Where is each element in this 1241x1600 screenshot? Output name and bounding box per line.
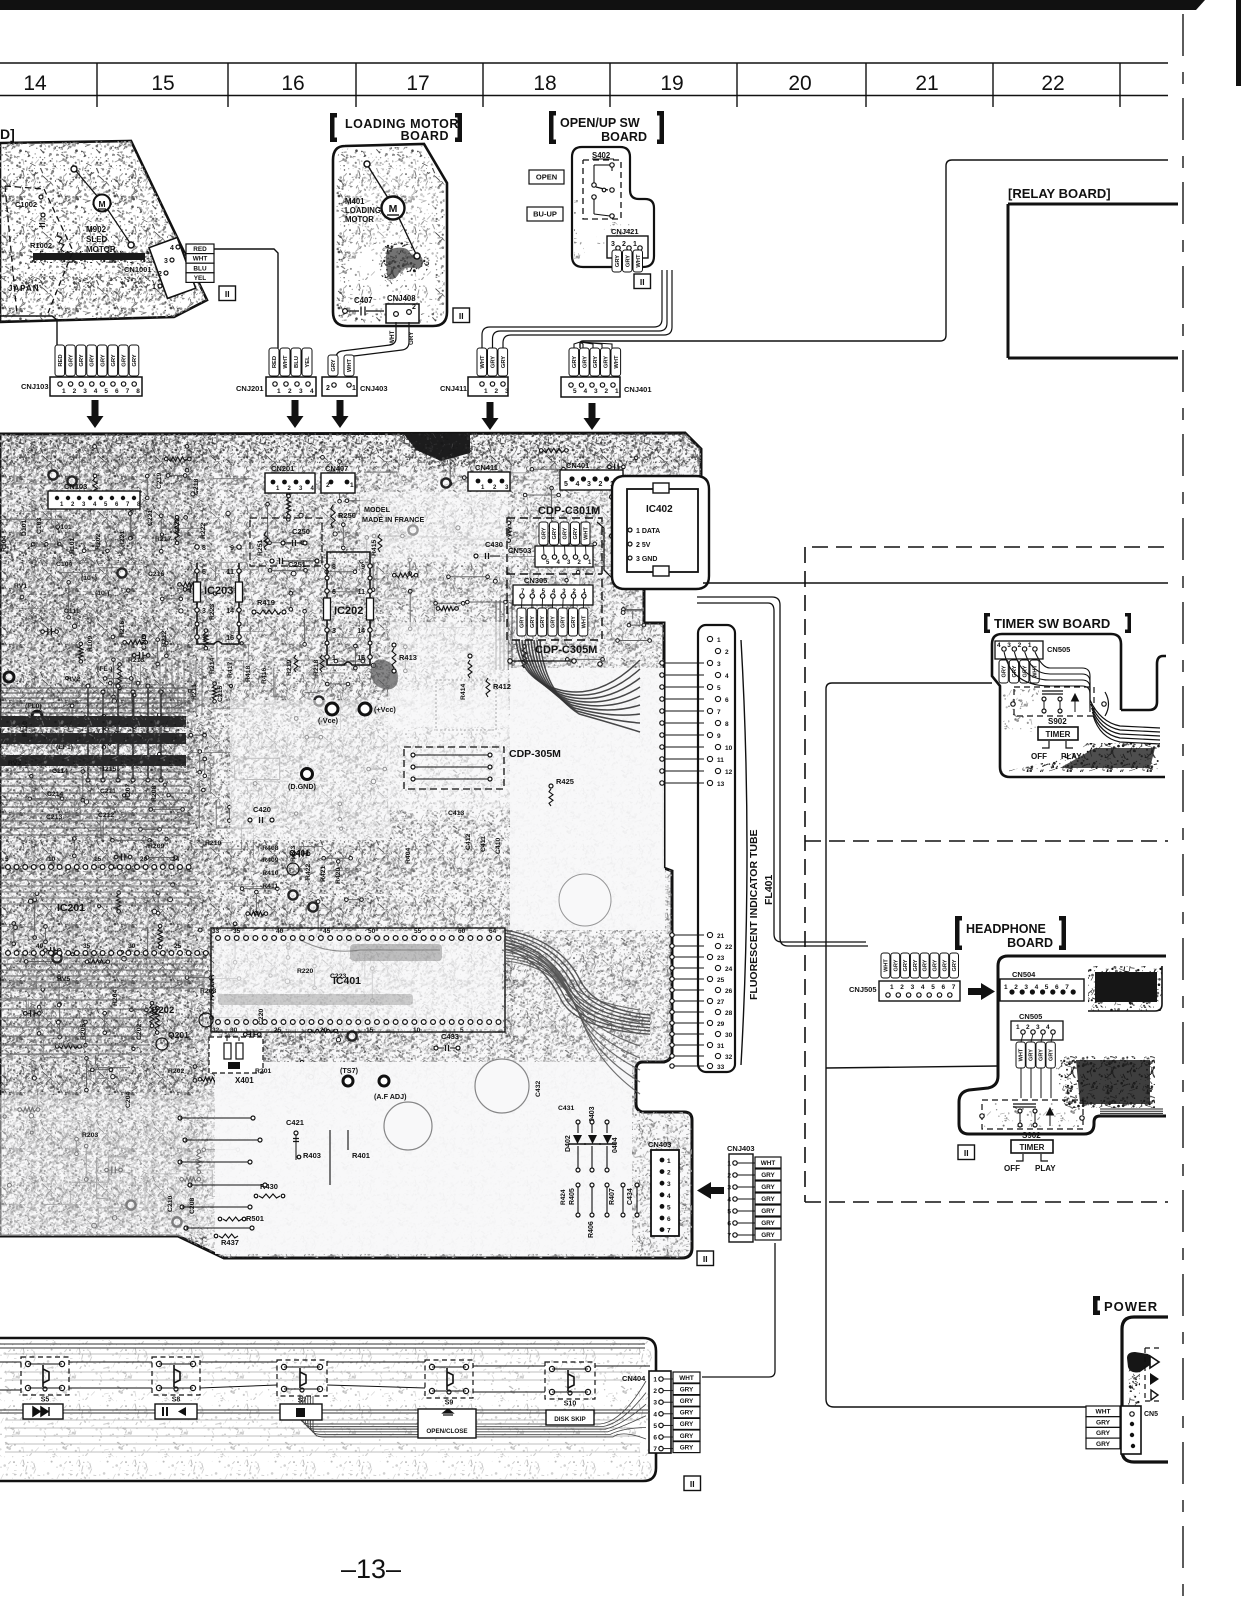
svg-text:BLU: BLU xyxy=(294,356,300,368)
svg-text:BOARD: BOARD xyxy=(601,130,647,144)
svg-text:R204: R204 xyxy=(112,990,119,1006)
trace with pads right of CN503 xyxy=(610,495,615,500)
svg-text:7: 7 xyxy=(653,1446,657,1453)
svg-text:GRY: GRY xyxy=(680,1386,694,1393)
svg-text:WHT: WHT xyxy=(761,1160,776,1167)
svg-text:GRY: GRY xyxy=(1049,1049,1055,1061)
svg-text:R425: R425 xyxy=(556,777,574,786)
svg-text:WHT: WHT xyxy=(584,527,590,540)
wires CN505 fan right xyxy=(1035,652,1090,700)
svg-text:GRY: GRY xyxy=(573,527,579,539)
svg-text:PLAY: PLAY xyxy=(1035,1164,1056,1173)
svg-text:WHT: WHT xyxy=(193,256,208,263)
svg-text:5: 5 xyxy=(931,984,935,991)
svg-text:24: 24 xyxy=(172,856,180,863)
motor M401 xyxy=(382,197,405,220)
svg-text:GRY: GRY xyxy=(893,959,899,971)
headphone board title xyxy=(955,916,962,950)
loading motor board outline xyxy=(333,144,447,326)
svg-text:GRY: GRY xyxy=(520,616,526,628)
svg-text:7: 7 xyxy=(717,709,721,716)
svg-text:GRY: GRY xyxy=(1096,1419,1111,1426)
svg-text:CNJ403: CNJ403 xyxy=(360,384,388,393)
speckle inside timer board xyxy=(1003,688,1039,732)
svg-text:CN305: CN305 xyxy=(524,576,547,585)
svg-text:CN403: CN403 xyxy=(648,1140,671,1149)
svg-text:MOTOR: MOTOR xyxy=(345,215,374,224)
svg-text:1: 1 xyxy=(667,1158,671,1165)
svg-text:35: 35 xyxy=(233,928,241,935)
svg-text:BOARD: BOARD xyxy=(401,129,449,143)
svg-text:C215: C215 xyxy=(217,686,224,702)
main PCB board outline xyxy=(0,433,701,1258)
svg-text:–13–: –13– xyxy=(341,1554,401,1584)
svg-text:(EF1): (EF1) xyxy=(56,744,73,751)
wire CNJ421 bundle to CNJ411 xyxy=(482,270,662,377)
svg-text:CDP-C301M: CDP-C301M xyxy=(538,505,600,517)
svg-text:GRY: GRY xyxy=(680,1433,694,1440)
svg-text:1: 1 xyxy=(727,1161,731,1168)
arrow to CN403 xyxy=(697,1182,724,1199)
svg-text:R203: R203 xyxy=(82,1132,98,1139)
svg-text:TIMER: TIMER xyxy=(1020,1143,1045,1152)
svg-text:CNJ408: CNJ408 xyxy=(387,294,416,303)
switch S5 xyxy=(21,1357,69,1395)
svg-text:4: 4 xyxy=(1035,984,1039,991)
svg-text:C214: C214 xyxy=(47,791,63,798)
wire labels WHT GRY GRY GRY (headphone) xyxy=(1016,1042,1025,1068)
dark wedge on pcb top edge xyxy=(403,433,470,461)
wire CN1001 to CNJ201 xyxy=(214,249,278,348)
svg-text:2: 2 xyxy=(288,388,292,395)
wire color labels RED WHT BLU YEL xyxy=(186,244,214,254)
wire labels GRY GRY WHT xyxy=(612,250,622,272)
svg-text:3: 3 xyxy=(727,1185,731,1192)
svg-text:4: 4 xyxy=(310,388,314,395)
svg-text:8: 8 xyxy=(725,721,729,728)
svg-text:C111: C111 xyxy=(64,608,80,615)
svg-text:6: 6 xyxy=(942,984,946,991)
svg-text:GRY: GRY xyxy=(550,616,556,628)
svg-text:2: 2 xyxy=(495,388,499,395)
svg-text:CN404: CN404 xyxy=(622,1374,646,1383)
svg-text:16: 16 xyxy=(281,72,304,95)
svg-text:16: 16 xyxy=(226,635,234,642)
svg-text:R203: R203 xyxy=(200,988,216,995)
svg-text:C212: C212 xyxy=(98,812,114,819)
svg-text:30: 30 xyxy=(230,1027,238,1034)
svg-text:17: 17 xyxy=(406,72,429,95)
IC IC202 xyxy=(327,552,370,665)
svg-text:GRY: GRY xyxy=(913,959,919,971)
pad D.GND xyxy=(302,769,313,780)
label box OPEN xyxy=(529,170,564,184)
svg-text:RED: RED xyxy=(193,246,207,253)
svg-text:4: 4 xyxy=(1046,1024,1050,1031)
connector FL401 (fluorescent tube) xyxy=(698,625,735,1072)
connector CNJ403 with labels xyxy=(328,355,338,376)
pads TS7 / A.F ADJ xyxy=(343,1076,353,1086)
svg-text:5: 5 xyxy=(727,1209,731,1216)
svg-text:GRY: GRY xyxy=(923,959,929,971)
svg-text:6: 6 xyxy=(727,1221,731,1228)
svg-text:3: 3 xyxy=(1024,984,1028,991)
svg-text:S8: S8 xyxy=(172,1397,181,1404)
svg-text:35: 35 xyxy=(83,943,91,950)
svg-text:20: 20 xyxy=(320,1027,328,1034)
svg-text:15: 15 xyxy=(94,856,102,863)
svg-text:WHT: WHT xyxy=(1095,1409,1110,1416)
svg-text:GRY: GRY xyxy=(593,356,599,368)
pads row below CDP-C305M xyxy=(508,659,512,663)
svg-text:YEL: YEL xyxy=(305,356,311,368)
svg-text:WHT: WHT xyxy=(636,254,642,268)
top black bar xyxy=(0,0,1205,10)
svg-text:8: 8 xyxy=(202,545,206,552)
svg-text:3: 3 xyxy=(83,388,87,395)
svg-text:R104: R104 xyxy=(1,536,8,552)
svg-text:C222: C222 xyxy=(174,518,181,534)
wire CNJ403 to CN404 xyxy=(702,1243,775,1377)
svg-text:GRY: GRY xyxy=(542,527,548,539)
svg-text:R1002: R1002 xyxy=(30,241,52,250)
svg-text:2: 2 xyxy=(158,271,162,278)
svg-text:GRY: GRY xyxy=(111,354,117,366)
IC IC402 xyxy=(627,489,698,572)
svg-text:1: 1 xyxy=(717,637,721,644)
key icon stop xyxy=(280,1404,322,1420)
svg-text:1 DATA: 1 DATA xyxy=(636,528,660,535)
svg-text:GRY: GRY xyxy=(501,356,507,368)
svg-text:R419: R419 xyxy=(257,598,275,607)
svg-text:R212: R212 xyxy=(161,631,168,647)
dark trace band xyxy=(30,251,152,263)
svg-text:GRY: GRY xyxy=(903,959,909,971)
svg-text:20: 20 xyxy=(140,856,148,863)
svg-text:14: 14 xyxy=(23,72,47,95)
svg-text:GRY: GRY xyxy=(761,1172,775,1179)
svg-text:R207: R207 xyxy=(125,784,132,800)
TIMER label box (headphone) xyxy=(1011,1140,1053,1153)
svg-text:(FL0): (FL0) xyxy=(25,703,42,710)
svg-text:M: M xyxy=(389,203,398,215)
svg-text:7: 7 xyxy=(952,984,956,991)
svg-text:R109: R109 xyxy=(87,636,94,652)
wires motor to pads xyxy=(368,166,388,198)
svg-text:14: 14 xyxy=(226,608,234,615)
svg-text:45: 45 xyxy=(323,928,331,935)
connector CNJ401 with labels xyxy=(569,348,579,376)
svg-text:R417: R417 xyxy=(227,662,234,678)
svg-text:R110: R110 xyxy=(22,721,29,737)
svg-text:18: 18 xyxy=(533,72,556,95)
arrow below CNJ401 xyxy=(584,403,601,430)
svg-text:C219: C219 xyxy=(156,473,163,489)
headphone board outline xyxy=(959,956,1166,1134)
svg-text:14: 14 xyxy=(357,628,365,635)
dark blob right of CN505 xyxy=(1056,1056,1155,1108)
IC IC203 xyxy=(197,563,239,644)
svg-text:4: 4 xyxy=(921,984,925,991)
svg-text:1: 1 xyxy=(890,984,894,991)
svg-text:21: 21 xyxy=(717,933,725,940)
svg-text:OFF: OFF xyxy=(1004,1164,1020,1173)
svg-text:WHT: WHT xyxy=(883,959,889,972)
svg-text:GRY: GRY xyxy=(100,354,106,366)
svg-text:9: 9 xyxy=(230,545,234,552)
svg-text:R422: R422 xyxy=(305,864,312,880)
svg-text:3: 3 xyxy=(911,984,915,991)
svg-text:R430: R430 xyxy=(260,1182,278,1191)
svg-text:C410: C410 xyxy=(495,838,502,854)
connector CN5.. (power) xyxy=(1121,1406,1141,1454)
wire labels WHT GRY GRY GRY (power) xyxy=(1086,1406,1120,1417)
open/up sw board outline xyxy=(572,147,654,267)
wire timer board to power board xyxy=(826,683,1087,1407)
svg-text:R211: R211 xyxy=(191,684,198,700)
svg-text:X401: X401 xyxy=(235,1076,254,1085)
svg-text:5: 5 xyxy=(5,856,9,863)
switch S9 xyxy=(425,1360,473,1398)
svg-text:C221: C221 xyxy=(147,510,154,526)
svg-text:3: 3 xyxy=(164,258,168,265)
svg-text:2: 2 xyxy=(1018,642,1022,649)
svg-text:GRY: GRY xyxy=(1096,1430,1111,1437)
FL401 pins bottom group xyxy=(707,932,712,937)
wire pcb to relay/timer (y583) xyxy=(703,582,1168,584)
svg-text:GRY: GRY xyxy=(680,1421,694,1428)
svg-text:R214: R214 xyxy=(209,658,216,674)
loading motor board title xyxy=(330,113,337,142)
svg-text:1: 1 xyxy=(615,388,619,395)
svg-text:R216: R216 xyxy=(119,621,126,637)
svg-text:C220: C220 xyxy=(258,1009,265,1025)
arrow CNJ505 to CN504 xyxy=(968,983,995,1000)
ref box II xyxy=(634,274,651,289)
svg-text:IC202: IC202 xyxy=(334,605,363,617)
svg-text:60: 60 xyxy=(458,928,466,935)
svg-text:GRY: GRY xyxy=(761,1208,775,1215)
svg-text:7: 7 xyxy=(727,1233,731,1240)
svg-text:R404: R404 xyxy=(405,848,412,864)
svg-text:C209: C209 xyxy=(141,634,148,650)
svg-text:PLAY: PLAY xyxy=(1061,752,1082,761)
svg-text:II: II xyxy=(640,277,645,287)
svg-text:GRY: GRY xyxy=(680,1398,694,1405)
TIMER label box xyxy=(1038,727,1078,740)
open/up sw board title xyxy=(549,111,556,144)
board long wires xyxy=(5,1353,640,1355)
svg-text:33: 33 xyxy=(212,928,220,935)
wire ribbon pcb to CNJ505 xyxy=(697,597,868,946)
right page dashed border xyxy=(1182,14,1184,1600)
power board outline xyxy=(1122,1317,1168,1462)
FL401 pins top group xyxy=(707,636,712,641)
svg-text:1: 1 xyxy=(352,385,356,392)
svg-text:4: 4 xyxy=(584,388,588,395)
svg-text:27: 27 xyxy=(717,999,725,1006)
wire bundle to CNJ401 from relay riser xyxy=(580,160,1168,348)
svg-text:(-Vce): (-Vce) xyxy=(318,716,339,725)
svg-text:7: 7 xyxy=(1065,984,1069,991)
svg-text:8: 8 xyxy=(136,388,140,395)
svg-text:GRY: GRY xyxy=(490,356,496,368)
svg-text:C208: C208 xyxy=(189,1198,196,1214)
svg-text:R416: R416 xyxy=(261,668,268,684)
IC IC401 xyxy=(211,928,505,1032)
dashed box C250/C251/R251 xyxy=(250,518,322,566)
switch S10 xyxy=(545,1362,595,1399)
svg-text:6: 6 xyxy=(653,1435,657,1442)
svg-text:II: II xyxy=(703,1254,708,1264)
svg-text:C211: C211 xyxy=(100,788,116,795)
svg-text:11: 11 xyxy=(358,589,366,596)
svg-text:GRY: GRY xyxy=(1039,1049,1045,1061)
svg-text:WHT: WHT xyxy=(1019,1048,1025,1061)
svg-text:RED: RED xyxy=(58,354,64,366)
svg-text:R405: R405 xyxy=(569,1188,576,1205)
svg-text:C413: C413 xyxy=(448,810,464,817)
svg-text:1: 1 xyxy=(633,241,637,248)
svg-text:2: 2 xyxy=(326,482,330,489)
svg-text:R424: R424 xyxy=(560,1189,567,1205)
svg-text:(D.GND): (D.GND) xyxy=(288,782,317,791)
svg-text:2: 2 xyxy=(326,385,330,392)
svg-text:-R411: -R411 xyxy=(260,883,278,890)
key icon pause/prev xyxy=(155,1404,197,1419)
svg-text:64: 64 xyxy=(489,928,497,935)
wire labels below CN305 xyxy=(517,608,526,636)
svg-text:3: 3 xyxy=(587,481,591,488)
svg-text:3: 3 xyxy=(1036,1024,1040,1031)
svg-text:3: 3 xyxy=(594,388,598,395)
svg-text:3: 3 xyxy=(667,1181,671,1188)
switch S902 (headphone) xyxy=(982,1100,1083,1129)
svg-text:CNJ411: CNJ411 xyxy=(440,384,467,393)
svg-text:12: 12 xyxy=(725,769,733,776)
svg-text:2: 2 xyxy=(599,481,603,488)
svg-text:C103: C103 xyxy=(36,518,43,534)
svg-text:GRY: GRY xyxy=(615,255,621,267)
svg-text:1: 1 xyxy=(350,482,354,489)
svg-text:BU-UP: BU-UP xyxy=(533,210,557,219)
svg-text:6: 6 xyxy=(332,589,336,596)
svg-text:C432: C432 xyxy=(535,1081,542,1097)
svg-text:29: 29 xyxy=(717,1021,725,1028)
svg-text:CN103: CN103 xyxy=(64,482,87,491)
svg-text:CN505: CN505 xyxy=(1047,645,1070,654)
svg-text:GRY: GRY xyxy=(761,1196,775,1203)
svg-text:22: 22 xyxy=(725,944,733,951)
svg-text:CN407: CN407 xyxy=(325,464,348,473)
svg-text:CN504: CN504 xyxy=(1012,970,1036,979)
svg-text:24: 24 xyxy=(725,966,733,973)
ref box II xyxy=(453,308,470,323)
ref box II xyxy=(219,286,236,301)
svg-text:30: 30 xyxy=(725,1032,733,1039)
dark trace bands (left strip) xyxy=(0,540,140,564)
IC402 enclosure on pcb edge xyxy=(612,476,709,589)
svg-text:(TS7): (TS7) xyxy=(340,1066,359,1075)
svg-text:OPEN: OPEN xyxy=(536,173,557,182)
OFF / PLAY xyxy=(1042,741,1073,748)
svg-text:M902: M902 xyxy=(86,225,107,234)
svg-text:7: 7 xyxy=(126,388,130,395)
svg-text:M: M xyxy=(98,199,105,209)
svg-text:R412: R412 xyxy=(493,682,511,691)
svg-text:C420: C420 xyxy=(253,805,271,814)
svg-text:(10-): (10-) xyxy=(95,590,109,597)
connector CNJ201 with labels xyxy=(269,348,279,376)
svg-text:OFF: OFF xyxy=(1031,752,1047,761)
svg-text:IC203: IC203 xyxy=(204,585,233,597)
svg-text:1: 1 xyxy=(1028,642,1032,649)
svg-text:R406: R406 xyxy=(588,1221,595,1238)
wire CNJ103 bundle xyxy=(0,316,57,345)
svg-text:10: 10 xyxy=(413,1027,421,1034)
svg-text:GRY: GRY xyxy=(68,354,74,366)
svg-text:R102: R102 xyxy=(95,534,102,550)
svg-text:(A.F ADJ): (A.F ADJ) xyxy=(374,1092,407,1101)
svg-text:R403: R403 xyxy=(303,1151,321,1160)
svg-text:RED: RED xyxy=(272,356,278,368)
label box BU-UP xyxy=(527,207,563,221)
svg-text:IC402: IC402 xyxy=(646,504,673,515)
svg-text:R208: R208 xyxy=(151,786,158,802)
svg-text:1: 1 xyxy=(1004,984,1008,991)
svg-text:C407: C407 xyxy=(354,296,373,305)
svg-text:8: 8 xyxy=(332,564,336,571)
svg-text:C210: C210 xyxy=(167,1196,174,1212)
svg-text:Q202: Q202 xyxy=(151,1005,174,1016)
svg-text:GRY: GRY xyxy=(1029,1049,1035,1061)
sled motor board (top-left, partial) xyxy=(0,141,207,322)
svg-text:R218: R218 xyxy=(313,660,320,676)
svg-text:MODEL: MODEL xyxy=(364,505,391,514)
svg-text:GRY: GRY xyxy=(90,354,96,366)
svg-text:(10+): (10+) xyxy=(81,575,97,582)
switch S8 xyxy=(152,1357,200,1395)
svg-text:GRY: GRY xyxy=(603,356,609,368)
svg-text:GRY: GRY xyxy=(582,356,588,368)
svg-text:GRY: GRY xyxy=(331,359,337,371)
dashed diode block xyxy=(1144,1348,1146,1401)
svg-text:22: 22 xyxy=(1041,72,1064,95)
svg-text:2: 2 xyxy=(725,649,729,656)
svg-text:1: 1 xyxy=(62,388,66,395)
svg-text:WHT: WHT xyxy=(480,355,486,369)
svg-text:R415: R415 xyxy=(371,540,378,556)
svg-text:RV3: RV3 xyxy=(8,760,21,767)
svg-text:GRY: GRY xyxy=(680,1410,694,1417)
svg-text:40: 40 xyxy=(36,943,44,950)
svg-text:S10: S10 xyxy=(564,1401,577,1408)
diode symbols xyxy=(1150,1356,1159,1368)
svg-text:6: 6 xyxy=(202,569,206,576)
svg-text:TIMER SW BOARD: TIMER SW BOARD xyxy=(994,616,1110,631)
svg-text:15: 15 xyxy=(151,72,174,95)
svg-text:CNJ103: CNJ103 xyxy=(21,382,49,391)
dashed block CDP-C301M xyxy=(507,518,602,640)
svg-text:IC201: IC201 xyxy=(57,902,85,914)
svg-text:4: 4 xyxy=(725,673,729,680)
svg-text:OPEN/CLOSE: OPEN/CLOSE xyxy=(426,1428,467,1435)
svg-text:JAPAN: JAPAN xyxy=(8,284,40,293)
key label DISK SKIP xyxy=(546,1410,594,1425)
wire labels WHT GRY x6 xyxy=(755,1157,781,1168)
svg-text:6: 6 xyxy=(1055,984,1059,991)
svg-text:GRY: GRY xyxy=(952,959,958,971)
